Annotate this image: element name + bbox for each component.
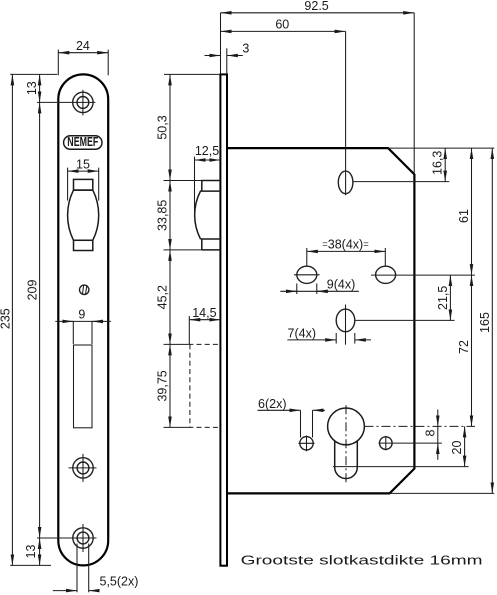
lock case outline <box>228 148 415 493</box>
screw hole bottom (faceplate) <box>37 524 97 552</box>
dimension 24 (faceplate width) <box>58 39 108 75</box>
dimension 14,5 <box>189 306 220 345</box>
svg-text:7(4x): 7(4x) <box>288 326 316 340</box>
svg-text:6(2x): 6(2x) <box>258 397 286 411</box>
top oval hole <box>338 171 449 194</box>
svg-text:209: 209 <box>25 280 39 301</box>
svg-text:3: 3 <box>242 42 249 56</box>
dimension 235 <box>0 74 57 565</box>
svg-text:45,2: 45,2 <box>156 285 170 309</box>
svg-text:61: 61 <box>457 209 471 223</box>
extension lines left case view <box>164 74 221 427</box>
faceplate front view outline <box>58 74 108 565</box>
dimension 209 <box>25 102 39 538</box>
svg-text:165: 165 <box>478 312 492 333</box>
euro cylinder hole <box>328 405 475 482</box>
svg-text:50,3: 50,3 <box>156 115 170 139</box>
screw symbol <box>80 285 89 295</box>
dimension 6(2x) <box>258 397 326 438</box>
dimension =38(4x)= <box>307 238 386 267</box>
faceplate side bar <box>220 74 227 565</box>
dimension 9 (deadbolt slot width) <box>55 308 111 344</box>
dimension 16,3 <box>388 148 494 182</box>
dimension 15 (latch width) <box>68 157 99 200</box>
dimension 8 <box>423 410 438 460</box>
dimension 165 <box>478 148 493 493</box>
svg-text:15: 15 <box>76 157 90 171</box>
dimension 60 <box>221 18 346 196</box>
svg-text:9(4x): 9(4x) <box>327 278 355 292</box>
svg-text:5,5(2x): 5,5(2x) <box>100 575 139 589</box>
svg-text:=38(4x)=: =38(4x)= <box>322 238 369 252</box>
dimension 21,5 <box>436 275 451 320</box>
svg-text:8: 8 <box>423 429 437 436</box>
svg-text:12,5: 12,5 <box>195 144 219 158</box>
dimension 5,5(2x) (screw hole dia) <box>53 544 139 593</box>
dimension 7(4x) <box>287 326 371 343</box>
svg-text:21,5: 21,5 <box>436 286 450 310</box>
svg-text:33,85: 33,85 <box>156 200 170 231</box>
svg-text:9: 9 <box>78 308 85 322</box>
svg-text:60: 60 <box>275 18 289 32</box>
follower hole left (9 4x) <box>294 266 320 283</box>
dimension 20 <box>450 426 465 466</box>
dimension 13 bottom <box>24 538 40 565</box>
dimension 92.5 <box>221 0 415 174</box>
screw hole middle (faceplate) <box>69 454 97 482</box>
middle oval hole (7 4x) <box>336 305 454 345</box>
svg-text:72: 72 <box>457 340 471 354</box>
svg-text:14,5: 14,5 <box>192 306 216 320</box>
svg-text:92.5: 92.5 <box>304 0 328 13</box>
svg-text:16,3: 16,3 <box>431 151 445 175</box>
svg-text:13: 13 <box>25 81 39 95</box>
svg-text:39,75: 39,75 <box>156 370 170 401</box>
dimension 13 top <box>25 74 40 102</box>
svg-text:NEMEF: NEMEF <box>67 135 98 149</box>
latch bolt front view <box>68 179 99 250</box>
svg-text:20: 20 <box>450 441 464 455</box>
dimension 9(4x) <box>280 278 359 295</box>
bottom extension line <box>390 492 495 494</box>
dashed hidden box <box>188 344 220 427</box>
dimension 12,5 (latch protrusion) <box>195 144 221 215</box>
svg-text:Grootste slotkastdikte 16mm: Grootste slotkastdikte 16mm <box>241 554 483 568</box>
chained vertical dims 50,3 / 33,85 / 45,2 / 39,75 <box>156 74 171 427</box>
dimension 3 (faceplate thickness) <box>205 42 250 75</box>
follower hole right <box>371 266 475 283</box>
cylinder fixing hole left (6 2x) <box>298 436 314 452</box>
svg-text:235: 235 <box>0 308 13 329</box>
NEMEF logo <box>64 135 102 149</box>
svg-text:24: 24 <box>76 39 90 53</box>
svg-text:13: 13 <box>24 545 38 559</box>
dimension 61 / 72 <box>457 148 472 426</box>
fixing hole right <box>379 436 442 451</box>
screw hole top (faceplate) <box>37 90 96 116</box>
deadbolt cutout <box>74 345 93 428</box>
latch side view <box>195 181 221 250</box>
